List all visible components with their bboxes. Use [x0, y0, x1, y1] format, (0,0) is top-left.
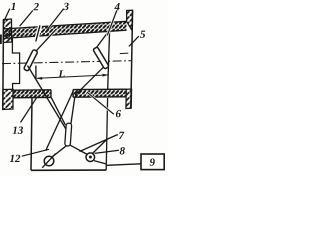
left flange top tab — [3, 19, 12, 43]
beam from left reflector to crystal — [28, 66, 67, 130]
pipe top wall hatched band — [4, 21, 127, 38]
pipe bottom wall hatched band right piece — [73, 89, 127, 97]
leader 2 — [20, 11, 33, 27]
left reflector stem — [35, 66, 37, 78]
label 6 — [116, 110, 121, 117]
label 1 — [11, 3, 15, 10]
wire to electronics box 9 — [106, 164, 141, 166]
leader 3 — [49, 9, 64, 28]
label 3 — [63, 3, 68, 10]
scan edge smudge — [0, 35, 2, 45]
label 2 — [33, 3, 38, 10]
label 5 — [140, 31, 145, 38]
label 7 — [119, 132, 124, 139]
left flange bottom tab — [3, 89, 13, 109]
stray centerline dash — [120, 52, 129, 55]
leader 7 — [80, 135, 118, 152]
reflector (right tilted plate) — [93, 47, 109, 69]
right flange face line — [131, 10, 133, 108]
label 4 — [114, 3, 119, 10]
adjuster screw 12 (circle with slash) — [44, 156, 54, 166]
leader 13 — [21, 97, 38, 123]
label 8 — [120, 147, 125, 154]
leader 12 — [22, 149, 49, 156]
transducer 3 acoustic axis — [33, 29, 57, 55]
leader 5 — [129, 36, 139, 46]
label 12 — [10, 155, 14, 162]
centerline (pipe axis, dash-dot) — [2, 61, 131, 64]
leader 1 — [4, 9, 10, 21]
wire from beam line to transducer 8 — [92, 139, 107, 154]
leader 6 — [87, 92, 114, 114]
beam from right reflector to funnel — [75, 66, 105, 96]
transducer 4 axis to right reflector — [97, 31, 109, 48]
transducer 4 beam vertical line — [108, 30, 110, 89]
dimension L right arrowhead — [103, 74, 109, 77]
right flange top tab — [127, 10, 133, 30]
wire to adjuster 12 — [46, 92, 73, 151]
dimension L line — [36, 75, 108, 79]
wire transducer 8 to housing edge — [94, 161, 106, 164]
funnel left edge — [51, 97, 65, 125]
label 9 — [150, 159, 155, 166]
transducer 8 (small circle with dot) — [86, 153, 95, 162]
housing box left edge — [31, 98, 32, 170]
transducer 3 mount slot line — [36, 25, 41, 42]
housing box right edge — [106, 98, 107, 170]
right flange bottom tab — [126, 89, 132, 109]
pipe bottom wall hatched band left piece — [13, 90, 51, 98]
funnel right edge — [71, 97, 75, 124]
housing box bottom edge — [31, 169, 106, 171]
left flange face line — [2, 20, 5, 111]
leader 4 — [107, 10, 117, 35]
label L — [59, 70, 65, 77]
left bore step profile — [12, 38, 19, 90]
leader 8 — [95, 150, 119, 153]
wire crystal to transducer 8 — [70, 145, 88, 155]
dimension L left arrowhead — [36, 77, 42, 80]
piezo crystal capsule 7 — [65, 123, 72, 146]
label 13 — [13, 127, 17, 134]
wire crystal to adjuster 12 — [52, 146, 66, 157]
reflector (left tilted plate) — [24, 49, 38, 71]
electronics box 9 — [141, 154, 164, 170]
